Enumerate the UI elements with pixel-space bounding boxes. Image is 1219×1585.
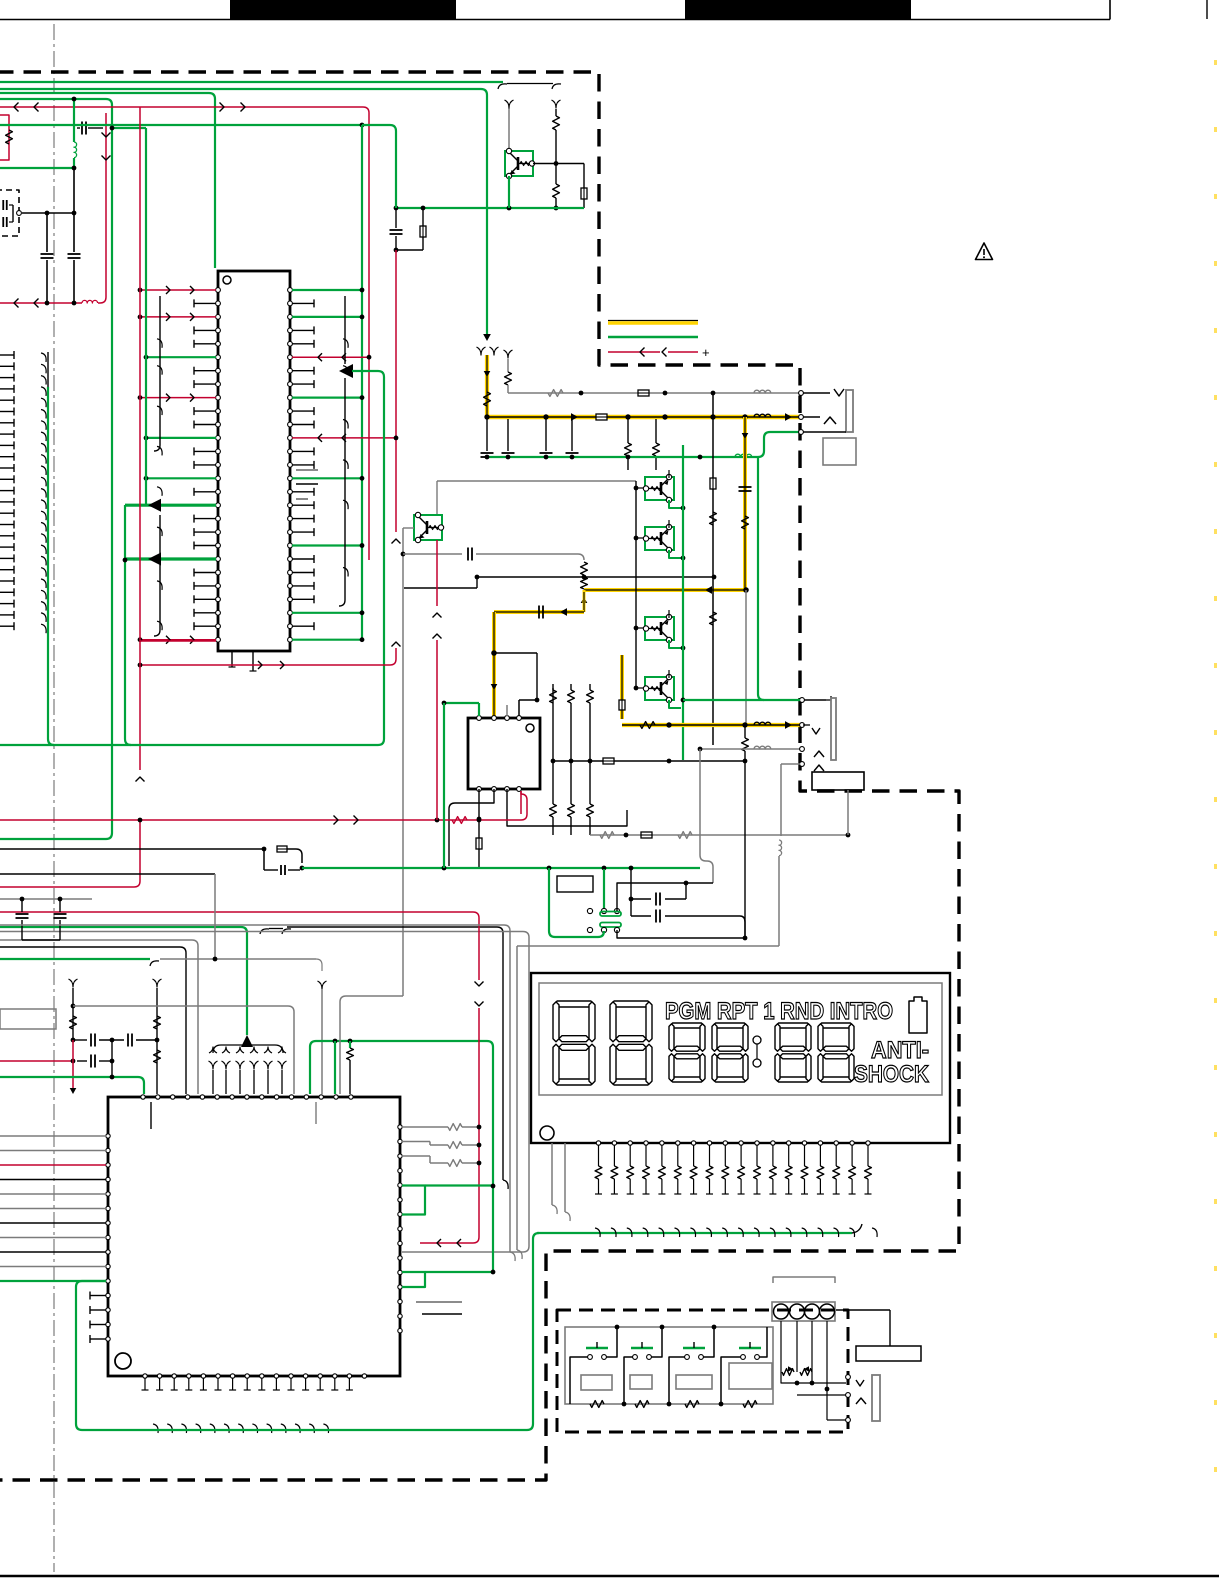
headphone jack body	[803, 699, 826, 701]
page bottom rule	[0, 1575, 1219, 1578]
connector CN4	[772, 1302, 835, 1321]
connector CN4 bracket	[773, 1277, 835, 1283]
svg-text:+: +	[702, 345, 710, 360]
IC201 no-connect marks	[296, 469, 318, 471]
IC401 system microcontroller	[108, 1097, 400, 1376]
IC201 right pins	[288, 288, 293, 293]
green spread bundle	[241, 1035, 253, 1047]
fold line dash-dot	[53, 24, 55, 1572]
resistor column x571	[568, 690, 575, 703]
wire Q101 right	[533, 163, 584, 165]
sub board dashed outline	[557, 1310, 848, 1432]
red feed down right of QFP	[0, 912, 479, 980]
svg-text:ANTI-: ANTI-	[871, 1037, 929, 1064]
cap C20 link	[630, 869, 632, 916]
IC301 pin8 red wire	[520, 791, 522, 814]
IC201 left harness bundle	[154, 296, 160, 451]
switch S2	[633, 1355, 638, 1360]
switch cap rect 3	[676, 1375, 712, 1389]
grey row A2 corridor	[0, 925, 510, 1252]
green bottom return rail	[0, 744, 378, 746]
switch S4	[741, 1355, 746, 1360]
mid rail IC301	[553, 760, 745, 762]
wire resonator node	[22, 212, 74, 214]
crystal X1	[2, 200, 4, 210]
resistor R11	[581, 577, 588, 589]
yellow supply drop	[485, 355, 489, 417]
transistor bank base rail	[635, 481, 637, 688]
red bias wire	[0, 1060, 73, 1062]
red return wire	[0, 302, 82, 304]
yellow branch down	[743, 417, 747, 590]
page corner tick top right	[1206, 0, 1208, 19]
IC401 left pins	[106, 1134, 110, 1138]
resistor under output	[744, 723, 746, 738]
yellow registration dashes right edge	[1214, 60, 1217, 1500]
switch row2 return wire	[617, 930, 745, 938]
grey pin3 stub	[506, 705, 508, 716]
riser x745 to mid rail	[744, 761, 746, 938]
yellow coupling link	[494, 610, 584, 614]
grey row D with connector	[0, 958, 150, 960]
IC401 right green loop 2	[402, 1272, 425, 1287]
green spread stubs	[209, 1061, 218, 1069]
green emitter rail	[396, 207, 584, 209]
green wire to headphone jack	[683, 699, 800, 701]
capacitor on yellow col	[739, 486, 752, 488]
resistor R1	[6, 130, 13, 144]
jack J1 body	[846, 390, 853, 432]
grey base column	[402, 528, 404, 996]
connector arcs on green harness	[260, 929, 269, 934]
module box	[557, 876, 593, 892]
red riser	[98, 113, 106, 303]
grey collector wire Q101	[508, 108, 510, 151]
LCD 7seg digit 1	[554, 1001, 594, 1007]
grey mid rail	[477, 576, 714, 578]
LCD mounting hole	[540, 1126, 554, 1140]
IC301 pin5 wire	[478, 789, 480, 812]
coil L1	[74, 142, 77, 158]
green wire to DIP right column	[0, 124, 362, 126]
switch S1	[588, 1355, 593, 1360]
red signal wire top	[0, 106, 363, 108]
resistor R10	[581, 562, 588, 575]
LCD battery icon	[909, 997, 927, 1033]
green supply column left	[145, 128, 147, 505]
left connector stub field	[0, 354, 14, 356]
jack sleeve return	[800, 762, 805, 767]
grey output 2	[700, 748, 800, 750]
decoupling capacitors	[486, 419, 488, 451]
page header black bar right	[685, 0, 911, 20]
connector CN4 wires	[780, 1321, 782, 1360]
green corner A	[48, 387, 54, 745]
black row C	[0, 947, 186, 1094]
IC401 index marks	[150, 1102, 152, 1129]
green link to S6	[549, 868, 604, 937]
red long wire lower	[0, 819, 521, 821]
LCD pin resistors	[596, 1141, 600, 1145]
legend yellow wire	[608, 320, 698, 322]
green bundle output right	[352, 371, 384, 745]
emitter links	[669, 500, 681, 508]
grey drop below yellow corner	[745, 590, 747, 725]
transistor Q201	[636, 487, 646, 489]
grey drop from row 2	[214, 874, 216, 959]
red wire resume to row	[390, 648, 396, 665]
IC401 bottom pins	[143, 1374, 147, 1378]
detector switch S5	[603, 869, 605, 911]
switch board inner frame	[565, 1327, 773, 1404]
red column left	[139, 107, 141, 770]
transistor Q101	[505, 151, 533, 176]
legend green wire	[608, 336, 698, 338]
collector stubs up	[668, 470, 670, 478]
green row to QFP pin1	[0, 1076, 138, 1078]
green bus C	[0, 93, 215, 268]
grey rail upper	[508, 392, 800, 394]
left harness arcs	[41, 353, 46, 362]
black top of harness A	[47, 352, 49, 387]
yellow riser arrow	[581, 597, 588, 603]
sub board top rail	[836, 1309, 890, 1311]
IC401 right pins	[398, 1125, 402, 1129]
IC201 left pins	[216, 288, 221, 293]
svg-text:SHOCK: SHOCK	[854, 1061, 930, 1088]
green net above QFP right	[310, 1041, 493, 1272]
transistor Q102	[414, 515, 442, 540]
remote jack marks	[856, 1380, 864, 1386]
grey pair verticals below LCD	[551, 1143, 553, 1205]
black pin4 riser	[518, 700, 520, 716]
capacitor C4	[395, 208, 397, 228]
LCD 7seg digit 3	[670, 1023, 704, 1028]
long grey wire to display region	[517, 945, 779, 947]
IC201 bottom stubs	[231, 651, 233, 667]
switch pull resistors	[590, 1401, 604, 1408]
cap C21 link	[631, 915, 651, 917]
green wire to IC301 pin1	[444, 702, 479, 704]
green ground rail	[487, 456, 758, 458]
svg-text:PGM RPT 1 RND INTRO: PGM RPT 1 RND INTRO	[665, 998, 893, 1025]
detector switch S6	[600, 923, 621, 928]
resistor column x553	[552, 688, 554, 716]
grey long row	[73, 1005, 288, 1007]
yellow drop to IC301	[492, 612, 496, 718]
remote sense resistors	[782, 1369, 794, 1376]
transistor Q203	[636, 627, 646, 629]
box resistor R4	[583, 164, 585, 189]
IC401 top pins	[141, 1095, 145, 1099]
capacitor C2	[46, 213, 48, 252]
IC201 right harness bundle	[344, 296, 346, 364]
green loop around QFP bottom	[76, 1233, 539, 1430]
switch cap rect 2	[630, 1375, 652, 1389]
grey connector rect	[0, 1009, 56, 1029]
Q102 collector wire	[436, 481, 438, 515]
LCD 7seg digit 6	[819, 1023, 853, 1028]
bias resistors	[627, 419, 629, 443]
bias network R2 R3	[552, 100, 561, 108]
black riser x503	[497, 927, 503, 1180]
black row 2	[0, 873, 215, 875]
switch row1 return wire	[617, 883, 713, 911]
label box	[856, 1346, 921, 1361]
black harness extension	[287, 926, 497, 928]
page header black bar left	[230, 0, 456, 20]
green harness wire upper	[0, 927, 247, 1035]
cap row 2	[90, 1055, 92, 1068]
jack J1 tip mark	[803, 392, 830, 394]
yellow power bus	[487, 415, 799, 420]
switch cap rect 4	[729, 1363, 772, 1389]
wire node to resonator	[73, 168, 75, 213]
green riser to pin1 rail	[443, 703, 445, 868]
green harness under LCD	[537, 1232, 852, 1234]
IC301 pin7 wire	[507, 789, 627, 826]
red corner down to DIP field	[363, 107, 369, 560]
left caps pair	[0, 898, 92, 900]
black column x713	[712, 393, 714, 745]
IC401 nc marks right	[416, 1301, 462, 1303]
green rail corner to jack	[758, 432, 799, 457]
remote jack body	[872, 1375, 880, 1421]
connector block CN3	[812, 772, 864, 790]
jack J1 ring mark	[803, 416, 820, 418]
green vertical from ground rail	[758, 457, 764, 700]
thick green tap vertical	[125, 505, 131, 745]
green vertical right of DIP	[361, 125, 363, 640]
green rail through bank	[682, 445, 684, 760]
grey row A	[0, 932, 529, 1253]
crystal dashed box	[0, 190, 19, 236]
black branch from yellow	[494, 652, 537, 654]
green stub left	[0, 167, 74, 169]
green bus from module to IC301 area	[302, 867, 430, 869]
wire Q101 emitter down	[508, 176, 510, 208]
connector arcs bus A	[498, 84, 507, 89]
coupling cap C10	[403, 553, 462, 555]
connector block CN2	[823, 438, 856, 465]
LCD 7seg digit 2	[611, 1001, 651, 1007]
IC301 pin6 wire	[449, 789, 494, 866]
IC401 right green loop 1	[402, 1186, 425, 1215]
headphone jack contacts	[803, 724, 810, 726]
Q102 base wire	[403, 527, 414, 529]
green bus B	[0, 89, 487, 334]
remote jack contacts	[846, 1375, 851, 1380]
cap row 1	[71, 1038, 76, 1043]
capacitor C3	[73, 213, 75, 252]
transistor Q202	[636, 537, 646, 539]
IC301 headphone amplifier	[468, 718, 540, 789]
switch S3	[685, 1355, 690, 1360]
green bus D	[0, 99, 112, 839]
IC201 servo DSP	[218, 271, 290, 651]
grey feed from power section	[340, 996, 403, 1094]
red feed row bottom	[140, 640, 216, 642]
main board dashed outline	[0, 72, 959, 1480]
green to power entry arrow	[483, 334, 491, 341]
switch cap rect 1	[581, 1375, 612, 1390]
grey vcc drop	[504, 350, 513, 358]
LCD 7seg digit 4	[713, 1023, 747, 1028]
Q102 emitter red (broken)	[436, 540, 438, 606]
yellow output stage	[620, 655, 624, 719]
switch common dots	[615, 1325, 620, 1330]
green branch with capacitor C1	[73, 100, 75, 142]
black rows left mid	[0, 848, 264, 850]
QFP bottom harness arcs	[153, 1424, 158, 1433]
page header rule	[0, 19, 1110, 21]
warning triangle	[976, 243, 993, 260]
green ground bus lower	[430, 867, 700, 869]
yellow feedback wire	[584, 588, 746, 592]
LCD 7seg digit 5	[776, 1023, 810, 1028]
IC401 right pin wires grey	[448, 1124, 462, 1131]
LCD module outline	[531, 973, 950, 1143]
IC401 left pin wires	[0, 1135, 106, 1137]
legend red wire	[608, 351, 660, 353]
LCD colon	[753, 1036, 761, 1044]
red loop top left	[0, 115, 9, 160]
transistor Q204	[636, 687, 646, 689]
red wire down (broken)	[395, 250, 397, 532]
bias network left of QFP	[69, 979, 78, 987]
coil L2	[82, 300, 98, 303]
LCD inner bezel	[539, 983, 942, 1095]
resistor column x590	[587, 690, 594, 703]
power entry connector arcs	[477, 347, 486, 355]
grey bottom rail	[590, 834, 848, 836]
grey row B	[0, 940, 198, 1094]
box resistor R5	[422, 208, 424, 226]
red wire crossing note	[0, 886, 134, 888]
green bus A	[0, 81, 503, 83]
